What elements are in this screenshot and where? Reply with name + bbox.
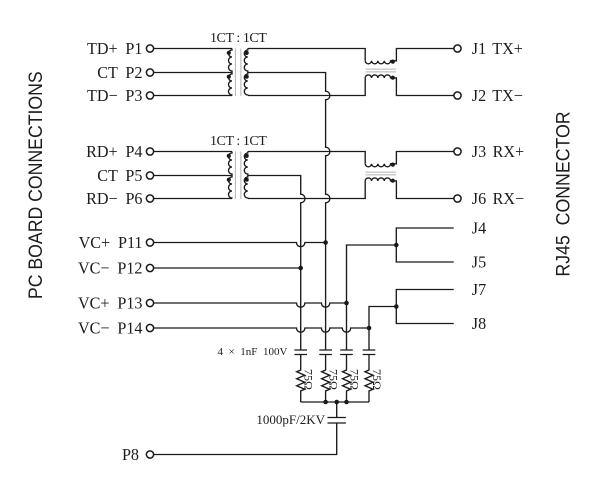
svg-text:75Ω: 75Ω <box>347 369 361 390</box>
svg-text:J7: J7 <box>472 280 486 299</box>
svg-text:P8: P8 <box>122 445 139 464</box>
svg-text:1000pF/2KV: 1000pF/2KV <box>256 412 325 427</box>
svg-text:PC BOARD CONNECTIONS: PC BOARD CONNECTIONS <box>24 71 46 299</box>
svg-text:4 × 1nF 100V: 4 × 1nF 100V <box>218 346 288 358</box>
svg-text:TD+ P1: TD+ P1 <box>87 39 143 58</box>
svg-text:J1 TX+: J1 TX+ <box>472 39 523 58</box>
svg-text:VC− P14: VC− P14 <box>78 318 143 337</box>
svg-text:1CT : 1CT: 1CT : 1CT <box>210 31 267 46</box>
svg-text:J3 RX+: J3 RX+ <box>472 142 524 161</box>
svg-text:VC+ P13: VC+ P13 <box>78 293 143 312</box>
svg-text:J6 RX−: J6 RX− <box>472 189 524 208</box>
svg-text:J2 TX−: J2 TX− <box>472 86 523 105</box>
svg-text:75Ω: 75Ω <box>370 369 384 390</box>
svg-text:75Ω: 75Ω <box>327 369 341 390</box>
svg-text:1CT : 1CT: 1CT : 1CT <box>210 134 267 149</box>
svg-text:VC+ P11: VC+ P11 <box>79 233 143 252</box>
svg-text:CT P2: CT P2 <box>97 63 142 82</box>
svg-text:J5: J5 <box>472 252 486 271</box>
svg-text:CT P5: CT P5 <box>97 166 142 185</box>
svg-text:J4: J4 <box>472 218 487 237</box>
svg-text:VC− P12: VC− P12 <box>78 258 143 277</box>
svg-text:TD− P3: TD− P3 <box>87 86 143 105</box>
svg-text:75Ω: 75Ω <box>302 369 316 390</box>
svg-text:J8: J8 <box>472 314 486 333</box>
svg-text:RD− P6: RD− P6 <box>86 189 142 208</box>
svg-text:RJ45 CONNECTOR: RJ45 CONNECTOR <box>551 111 573 276</box>
svg-text:RD+ P4: RD+ P4 <box>86 142 143 161</box>
